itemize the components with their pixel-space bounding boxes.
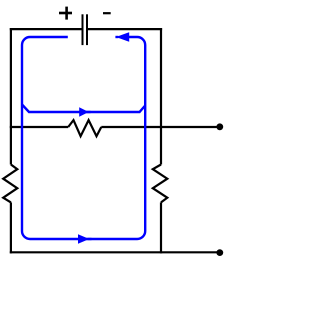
- wire: left edge top segment: [10, 28, 12, 165]
- wire: blue mesh-current loop outline (gap at capacitor): [22, 37, 145, 239]
- label: - polarity mark: [103, 12, 111, 14]
- label: + polarity mark: [59, 7, 72, 20]
- arrow: current direction on middle rung (points right): [79, 107, 90, 117]
- wire: bottom edge extending to lower terminal: [10, 251, 220, 253]
- wire: middle horizontal right of resistor, to upper terminal: [101, 126, 220, 128]
- node: upper terminal dot: [216, 123, 223, 130]
- capacitor C1 right plate: [86, 14, 88, 45]
- wire: top edge right of capacitor: [87, 28, 162, 30]
- arrow: current direction on top side (points left): [115, 32, 129, 42]
- arrow: current direction on bottom side (points right): [78, 234, 92, 244]
- wire: right edge top segment: [160, 28, 162, 165]
- resistor R3 (middle, horizontal): [68, 120, 101, 136]
- wire: top edge left of capacitor: [10, 28, 83, 30]
- wire: right edge bottom segment: [160, 202, 162, 253]
- wire: middle horizontal left of resistor: [10, 126, 68, 128]
- resistor R1 (left side, vertical): [3, 165, 17, 203]
- capacitor C1 left plate: [82, 14, 84, 45]
- wire: blue middle rung shared by both loops: [22, 105, 145, 113]
- node: lower terminal dot: [216, 249, 223, 256]
- resistor R2 (right side, vertical): [153, 165, 168, 203]
- wire: left edge bottom segment: [10, 202, 12, 253]
